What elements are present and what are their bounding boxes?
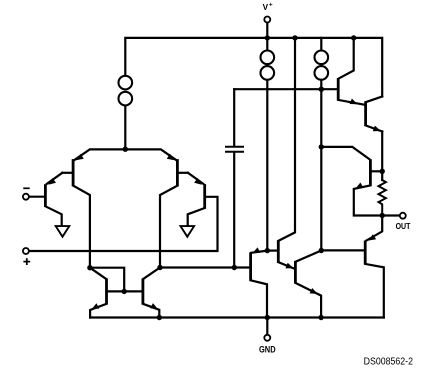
node mirror bases xyxy=(122,289,127,294)
junction Q6 emitter on ground rail xyxy=(157,315,162,320)
wire Q1 collector to ground xyxy=(45,206,61,225)
wire node D to Q13 base xyxy=(321,249,364,251)
junction Q9 emitter on ground rail xyxy=(318,315,323,320)
terminal IN- xyxy=(23,194,29,200)
wire IN- to Q1 base xyxy=(29,196,44,198)
node D (Q9 collector / Q13 base) xyxy=(319,248,324,253)
node C (I2 / Q7 emitter / Q8 base) xyxy=(265,248,270,253)
terminal GND xyxy=(266,318,268,335)
junction Q12 collector xyxy=(319,144,324,149)
wire V+ rail xyxy=(125,38,382,97)
ground (left) xyxy=(56,226,70,237)
transistor Q1 (IN- input PNP) xyxy=(44,184,47,207)
wire IN+ to Q4 base xyxy=(29,197,217,251)
transistor Q7 (second stage PNP) xyxy=(249,252,252,281)
junction I3 / Q10 base line xyxy=(319,87,324,92)
wire I1 to input emitters node xyxy=(124,106,126,149)
svg-text:OUT: OUT xyxy=(396,221,411,231)
junction GND on ground rail xyxy=(265,315,270,320)
wire ground rail (bottom) xyxy=(90,316,384,318)
junction V+ on rail xyxy=(265,35,270,40)
resistor R1 xyxy=(379,180,386,216)
node input tail xyxy=(123,147,128,152)
transistor Q4 (IN+ input PNP) xyxy=(203,184,206,209)
junction C1 bottom xyxy=(232,265,237,270)
wire node B to Q7 base xyxy=(160,266,249,268)
transistor Q12 (sense NPN) xyxy=(369,159,372,186)
terminal IN+ xyxy=(23,248,29,254)
wire tail to Q3 emitter xyxy=(125,149,176,160)
svg-text:V: V xyxy=(263,3,269,12)
capacitor C1 xyxy=(233,89,235,146)
current source I3 xyxy=(320,38,322,50)
junction Q12 base xyxy=(380,169,385,174)
transistor Q13 (output sink PNP) xyxy=(364,241,367,265)
wire I2 down to node C xyxy=(266,81,268,251)
wire Q11 emitter column xyxy=(381,131,383,180)
transistor Q2 (inner-left PNP) xyxy=(72,159,75,186)
wire tail to Q2 emitter xyxy=(74,149,125,160)
wire mirror base leads xyxy=(107,290,143,292)
node A (Q2 collector / mirror) xyxy=(87,265,92,270)
transistor Q8 (NPN driver) xyxy=(277,241,280,263)
transistor Q10 (output NPN darlington 1) xyxy=(337,78,340,100)
svg-text:DS008562-2: DS008562-2 xyxy=(364,357,413,368)
svg-text:+: + xyxy=(269,2,273,9)
current source I2 xyxy=(266,38,268,50)
terminal V+ xyxy=(266,23,268,38)
node B (Q3 collector / second stage) xyxy=(157,265,162,270)
wire I3 column down to node D xyxy=(320,81,322,251)
transistor Q5 (mirror left NPN) xyxy=(105,279,108,305)
junction Q10 collector on rail xyxy=(351,35,356,40)
wire Q4 collector to ground xyxy=(188,208,205,225)
transistor Q9 (gain NPN) xyxy=(294,261,297,283)
wire rail to Q8 collector xyxy=(278,38,295,241)
ground (right) xyxy=(181,226,195,237)
transistor Q6 (mirror right NPN) xyxy=(141,279,144,305)
wire Q10 base line xyxy=(234,88,337,90)
junction x295 on rail xyxy=(292,35,297,40)
wire node A to mirror bases xyxy=(90,268,124,292)
svg-text:GND: GND xyxy=(259,345,276,356)
current source I1 xyxy=(119,76,133,90)
transistor Q3 (inner-right PNP) xyxy=(176,159,179,186)
terminal OUT xyxy=(382,214,399,216)
transistor Q11 (output NPN darlington 2) xyxy=(364,102,367,126)
node OUT xyxy=(380,213,385,218)
